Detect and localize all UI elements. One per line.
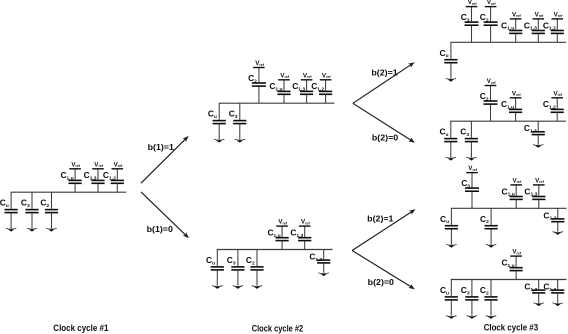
capacitor C1,u (cycle 3 / 11), top plate to Vref [509, 19, 522, 42]
capacitor C1,2 (cycle 2 / b(1)=1), top plate to Vref [319, 80, 332, 103]
svg-text:Cu: Cu [440, 285, 449, 296]
Vref terminal (C1,2, cycle 2 / b(1)=1) [320, 79, 332, 81]
svg-text:Vref: Vref [280, 72, 290, 79]
capacitor C2 (cycle 1), bottom plate to ground [45, 192, 58, 228]
svg-text:Vref: Vref [94, 161, 104, 168]
capacitor Cu (cycle 1), bottom plate to ground [5, 192, 18, 228]
svg-text:Vref: Vref [468, 0, 478, 6]
svg-text:C1,3: C1,3 [290, 228, 303, 239]
svg-text:b(2)=0: b(2)=0 [372, 133, 398, 143]
Vref terminal (C1,3, cycle 2 / b(1)=1) [301, 79, 313, 81]
svg-text:C1,u: C1,u [269, 81, 282, 92]
capacitor C3 (cycle 3 / 00), bottom plate to ground [465, 280, 478, 316]
wire: cycle 1 top-plate bus node [11, 191, 127, 193]
svg-text:Vref: Vref [468, 165, 478, 172]
Vref terminal (C1,u, cycle 3 / 00) [510, 255, 522, 257]
capacitor C1,u (cycle 1), top plate to Vref [69, 169, 82, 192]
Vref terminal (C1,3, cycle 1) [92, 168, 104, 170]
ground (Cu, cycle 2 / b(1)=0) [212, 285, 223, 286]
capacitor C3 (cycle 3 / 10), bottom plate to ground [465, 121, 478, 157]
branch arrow b(2)=0 (upper fork) [353, 103, 415, 143]
wire: cycle 3 / 11 top-plate bus node [450, 41, 566, 43]
svg-text:Clock cycle #3: Clock cycle #3 [484, 323, 538, 333]
Vref terminal (C3, cycle 3 / 01) [466, 172, 478, 174]
wire: cycle 3 / 10 top-plate bus node [450, 120, 566, 122]
ground (C3, cycle 1) [27, 228, 38, 229]
ground (C3, cycle 3 / 00) [467, 315, 478, 316]
capacitor C3 (cycle 2 / b(1)=1), bottom plate to ground [233, 103, 246, 139]
svg-text:C1,u: C1,u [501, 258, 514, 269]
svg-text:Clock cycle #2: Clock cycle #2 [252, 324, 304, 334]
svg-text:C3: C3 [227, 255, 236, 266]
ground (Cu, cycle 3 / 10) [445, 157, 456, 158]
svg-text:C1,3: C1,3 [84, 170, 97, 181]
capacitor C3 (cycle 2 / b(1)=0), bottom plate to ground [231, 250, 244, 286]
ground (Cu, cycle 2 / b(1)=1) [214, 139, 225, 140]
svg-text:C1,u: C1,u [501, 99, 514, 110]
svg-text:b(1)=1: b(1)=1 [148, 142, 174, 152]
svg-text:C1,2: C1,2 [309, 252, 322, 263]
svg-text:b(2)=1: b(2)=1 [367, 214, 393, 224]
Vref terminal (C1,u, cycle 3 / 10) [510, 97, 522, 99]
capacitor C1,3 (cycle 3 / 01), top plate to Vref [532, 185, 545, 208]
capacitor C2 (cycle 3 / 11), switched up to Vref [484, 7, 498, 43]
capacitor C1,3 (cycle 3 / 00), switched to ground [532, 280, 545, 303]
svg-text:Vref: Vref [512, 90, 522, 97]
svg-text:C1,2: C1,2 [543, 282, 556, 293]
svg-text:Cu: Cu [0, 198, 9, 209]
capacitor Cu (cycle 3 / 10), bottom plate to ground [444, 121, 457, 157]
svg-text:Vref: Vref [513, 177, 523, 184]
svg-text:Cu: Cu [440, 214, 449, 225]
ground (C3, cycle 3 / 10) [466, 157, 477, 158]
ground (C1,3, cycle 3 / 10) [533, 144, 544, 145]
Vref terminal (C1,u, cycle 3 / 01) [510, 184, 522, 186]
svg-text:Vref: Vref [535, 177, 545, 184]
svg-text:C3: C3 [460, 127, 469, 138]
svg-text:C1,2: C1,2 [543, 20, 556, 31]
wire: cycle 2 / b(1)=1 top-plate bus node [219, 102, 335, 104]
svg-text:C3: C3 [229, 109, 238, 120]
Vref terminal (C1,u, cycle 2 / b(1)=1) [278, 79, 290, 81]
ground (C3, cycle 2 / b(1)=1) [234, 139, 245, 140]
svg-text:C2: C2 [480, 12, 489, 23]
Vref terminal (C1,u, cycle 3 / 11) [510, 18, 522, 20]
capacitor C2 (cycle 3 / 01), bottom plate to ground [485, 208, 498, 244]
ground (C2, cycle 3 / 01) [486, 244, 497, 245]
ground (C1,2, cycle 3 / 00) [552, 303, 563, 304]
svg-text:C2: C2 [248, 73, 257, 84]
svg-text:C1,u: C1,u [267, 228, 280, 239]
ground (Cu, cycle 3 / 01) [446, 244, 457, 245]
Vref terminal (C2, cycle 2 / b(1)=1) [253, 67, 265, 69]
ground (Cu, cycle 3 / 11) [446, 78, 457, 79]
capacitor C1,u (cycle 2 / b(1)=0), top plate to Vref [276, 226, 289, 249]
capacitor C1,3 (cycle 1), top plate to Vref [91, 169, 104, 192]
ground (Cu, cycle 3 / 00) [446, 315, 457, 316]
svg-text:Vref: Vref [554, 90, 564, 97]
ground (C2, cycle 2 / b(1)=0) [252, 285, 263, 286]
capacitor C3 (cycle 3 / 01), switched up to Vref [465, 173, 479, 209]
capacitor C1,u (cycle 3 / 01), top plate to Vref [510, 185, 523, 208]
svg-text:C1,u: C1,u [502, 186, 515, 197]
Vref terminal (C3, cycle 3 / 11) [466, 6, 478, 8]
capacitor C1,u (cycle 2 / b(1)=1), top plate to Vref [277, 80, 290, 103]
svg-text:C1,3: C1,3 [524, 282, 537, 293]
capacitor C1,3 (cycle 2 / b(1)=1), top plate to Vref [300, 80, 313, 103]
ground (C1,2, cycle 3 / 01) [552, 231, 563, 232]
capacitor C1,2 (cycle 3 / 11), top plate to Vref [551, 19, 564, 42]
ground (C2, cycle 1) [46, 228, 57, 229]
Vref terminal (C1,u, cycle 1) [69, 168, 81, 170]
svg-text:Vref: Vref [303, 72, 313, 79]
ground (C3, cycle 2 / b(1)=0) [233, 285, 244, 286]
svg-text:Vref: Vref [487, 0, 497, 6]
svg-text:Cu: Cu [440, 48, 449, 59]
Vref terminal (C1,3, cycle 3 / 11) [533, 18, 545, 20]
svg-text:Cu: Cu [208, 109, 217, 120]
ground (Cu, cycle 1) [6, 228, 17, 229]
svg-text:C2: C2 [480, 214, 489, 225]
capacitor C2 (cycle 2 / b(1)=1), switched up to Vref [252, 68, 266, 104]
svg-text:Vref: Vref [554, 11, 564, 18]
svg-text:C2: C2 [480, 91, 489, 102]
svg-text:C1,2: C1,2 [543, 99, 556, 110]
svg-text:C1,3: C1,3 [524, 186, 537, 197]
svg-text:Cu: Cu [206, 255, 215, 266]
Vref terminal (C2, cycle 3 / 10) [485, 85, 497, 87]
wire: cycle 3 / 01 top-plate bus node [451, 207, 567, 209]
svg-text:Vref: Vref [322, 72, 332, 79]
svg-text:b(2)=1: b(2)=1 [371, 68, 397, 78]
capacitor C1,2 (cycle 3 / 00), switched to ground [551, 280, 564, 303]
capacitor C1,3 (cycle 2 / b(1)=0), top plate to Vref [298, 226, 311, 249]
svg-text:C1,u: C1,u [501, 20, 514, 31]
Vref terminal (C1,2, cycle 1) [112, 168, 124, 170]
svg-text:C1,u: C1,u [60, 170, 73, 181]
branch arrow b(2)=1 (upper fork) [353, 62, 415, 103]
capacitor C1,2 (cycle 3 / 10), top plate to Vref [551, 98, 564, 121]
svg-text:C3: C3 [461, 178, 470, 189]
capacitor Cu (cycle 2 / b(1)=0), bottom plate to ground [211, 250, 224, 286]
svg-text:Cu: Cu [439, 127, 448, 138]
svg-text:C1,2: C1,2 [543, 210, 556, 221]
svg-text:Vref: Vref [512, 249, 522, 256]
wire: cycle 2 / b(1)=0 top-plate bus node [217, 249, 333, 251]
capacitor C1,3 (cycle 3 / 10), switched to ground [532, 121, 545, 144]
capacitor C1,u (cycle 3 / 10), top plate to Vref [509, 98, 522, 121]
capacitor C3 (cycle 1), bottom plate to ground [25, 192, 38, 228]
svg-text:C2: C2 [246, 255, 255, 266]
svg-text:Vref: Vref [114, 161, 124, 168]
svg-text:Vref: Vref [301, 219, 311, 226]
svg-text:Vref: Vref [487, 78, 497, 85]
svg-text:Vref: Vref [278, 219, 288, 226]
capacitor Cu (cycle 3 / 00), bottom plate to ground [445, 280, 458, 316]
capacitor C1,2 (cycle 1), top plate to Vref [111, 169, 124, 192]
branch arrow b(1)=1 (cycle1 to cycle2 top) [141, 136, 189, 183]
Vref terminal (C1,3, cycle 3 / 01) [533, 184, 545, 186]
capacitor C2 (cycle 3 / 00), bottom plate to ground [484, 280, 497, 316]
svg-text:C1,2: C1,2 [311, 81, 324, 92]
branch arrow b(2)=0 (lower fork) [352, 251, 415, 290]
svg-text:Vref: Vref [71, 161, 81, 168]
capacitor Cu (cycle 2 / b(1)=1), bottom plate to ground [213, 103, 226, 139]
svg-text:C1,3: C1,3 [524, 123, 537, 134]
svg-text:b(1)=0: b(1)=0 [147, 224, 173, 234]
ground (C2, cycle 3 / 00) [486, 315, 497, 316]
ground (C1,3, cycle 3 / 00) [533, 303, 544, 304]
capacitor C3 (cycle 3 / 11), switched up to Vref [465, 7, 479, 43]
capacitor C1,u (cycle 3 / 00), top plate to Vref [510, 256, 523, 279]
svg-text:C1,3: C1,3 [524, 20, 537, 31]
svg-text:b(2)=0: b(2)=0 [368, 277, 394, 287]
svg-text:C3: C3 [21, 198, 30, 209]
svg-text:C2: C2 [480, 285, 489, 296]
svg-text:Vref: Vref [512, 11, 522, 18]
wire: cycle 3 / 00 top-plate bus node [451, 279, 567, 281]
svg-text:C1,2: C1,2 [103, 170, 116, 181]
capacitor C1,2 (cycle 3 / 01), switched to ground [551, 208, 564, 231]
Vref terminal (C1,2, cycle 3 / 10) [551, 97, 563, 99]
Vref terminal (C1,3, cycle 2 / b(1)=0) [299, 225, 311, 227]
capacitor Cu (cycle 3 / 01), bottom plate to ground [445, 208, 458, 244]
svg-text:Clock cycle #1: Clock cycle #1 [53, 323, 108, 333]
branch arrow b(2)=1 (lower fork) [352, 209, 415, 250]
capacitor C1,2 (cycle 2 / b(1)=0), switched to ground [317, 250, 330, 273]
svg-text:C3: C3 [461, 12, 470, 23]
ground (C1,2, cycle 2 / b(1)=0) [318, 273, 329, 274]
capacitor C1,3 (cycle 3 / 11), top plate to Vref [532, 19, 545, 42]
branch arrow b(1)=0 (cycle1 to cycle2 bottom) [141, 192, 189, 238]
Vref terminal (C2, cycle 3 / 11) [485, 6, 497, 8]
Vref terminal (C1,u, cycle 2 / b(1)=0) [276, 225, 288, 227]
svg-text:C3: C3 [461, 285, 470, 296]
capacitor C2 (cycle 3 / 10), switched up to Vref [484, 86, 498, 122]
capacitor C2 (cycle 2 / b(1)=0), bottom plate to ground [250, 250, 263, 286]
svg-text:C1,3: C1,3 [292, 81, 305, 92]
Vref terminal (C1,2, cycle 3 / 11) [552, 18, 564, 20]
svg-text:C2: C2 [40, 198, 49, 209]
capacitor Cu (cycle 3 / 11), bottom plate to ground [444, 42, 457, 78]
svg-text:Vref: Vref [535, 11, 545, 18]
svg-text:Vref: Vref [255, 60, 265, 67]
